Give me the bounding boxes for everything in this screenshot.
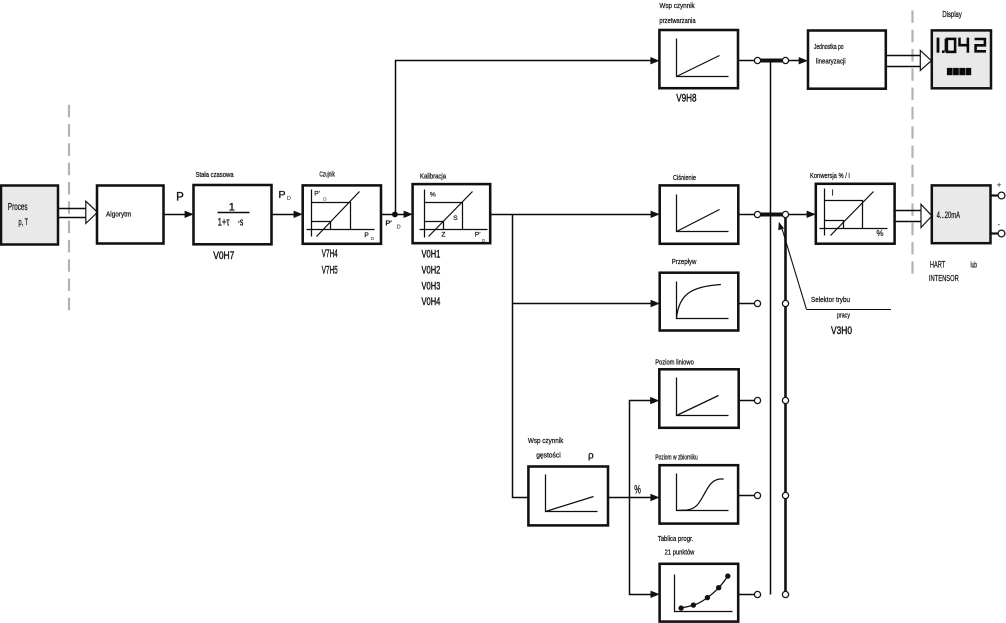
svg-text:p, T: p, T (19, 217, 29, 227)
svg-text:ρ: ρ (588, 451, 594, 462)
svg-text:21 punktów: 21 punktów (665, 548, 695, 557)
svg-text:D: D (287, 196, 291, 202)
svg-text:V0H3: V0H3 (422, 280, 441, 292)
svg-text:P: P (176, 191, 184, 203)
svg-text:Poziom w zbiorniku: Poziom w zbiorniku (655, 452, 698, 461)
svg-text:przetwarzania: przetwarzania (659, 16, 696, 25)
svg-text:%: % (430, 191, 436, 198)
svg-text:V7H4: V7H4 (322, 248, 338, 260)
svg-text:Selektor trybu: Selektor trybu (811, 295, 850, 304)
svg-text:1+τ: 1+τ (218, 216, 230, 228)
svg-text:+: + (997, 180, 1002, 190)
svg-text:Poziom liniowo: Poziom liniowo (655, 357, 694, 366)
svg-text:gęstości: gęstości (536, 450, 561, 459)
svg-text:HART: HART (930, 260, 945, 271)
svg-text:Stała czasowa: Stała czasowa (196, 170, 234, 179)
svg-text:%: % (634, 484, 641, 496)
svg-text:Wsp czynnik: Wsp czynnik (528, 436, 564, 445)
svg-text:Kalibracja: Kalibracja (420, 171, 447, 180)
svg-text:pracy: pracy (837, 310, 850, 319)
svg-text:⋅s: ⋅s (238, 216, 244, 228)
svg-text:Ciśnienie: Ciśnienie (673, 173, 696, 182)
svg-text:Tablica progr.: Tablica progr. (658, 534, 694, 543)
svg-text:Przepływ: Przepływ (672, 257, 697, 266)
svg-text:P': P' (475, 232, 481, 239)
svg-text:Czujnik: Czujnik (319, 169, 335, 178)
svg-text:Wsp czynnik: Wsp czynnik (659, 1, 694, 10)
svg-text:1: 1 (229, 201, 235, 213)
svg-text:linearyzacji: linearyzacji (816, 57, 846, 66)
svg-text:Proces: Proces (8, 202, 28, 213)
svg-text:V0H1: V0H1 (422, 249, 441, 261)
svg-text:V0H2: V0H2 (422, 264, 441, 276)
svg-text:V0H4: V0H4 (422, 296, 441, 308)
svg-text:P: P (279, 189, 286, 201)
svg-text:INTENSOR: INTENSOR (929, 274, 959, 283)
svg-text:-: - (997, 219, 1000, 229)
svg-text:V0H7: V0H7 (213, 250, 234, 262)
svg-text:%: % (876, 229, 883, 238)
svg-text:I: I (832, 188, 834, 197)
svg-text:S: S (453, 215, 458, 222)
svg-text:Jednostka po: Jednostka po (814, 42, 844, 51)
svg-text:lub: lub (971, 261, 978, 270)
svg-text:Display: Display (942, 10, 962, 19)
svg-text:P': P' (314, 191, 320, 198)
svg-text:4...20mA: 4...20mA (937, 210, 961, 220)
svg-text:P': P' (385, 219, 392, 228)
svg-text:Algorytm: Algorytm (106, 210, 131, 219)
svg-text:V9H8: V9H8 (676, 92, 696, 104)
svg-text:Z: Z (441, 232, 445, 239)
svg-text:P: P (364, 232, 369, 239)
svg-text:V7H5: V7H5 (322, 265, 338, 277)
svg-text:V3H0: V3H0 (831, 325, 852, 337)
svg-text:Konwersja % / I: Konwersja % / I (810, 171, 850, 180)
svg-text:D: D (397, 225, 401, 231)
